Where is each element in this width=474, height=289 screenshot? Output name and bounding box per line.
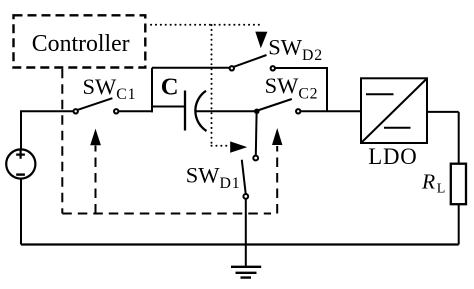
svg-text:SWD1: SWD1 xyxy=(186,162,241,191)
wire SWC1 to node A xyxy=(119,110,154,112)
wire capacitor to node B xyxy=(195,110,255,112)
wire resistor to bottom rail xyxy=(458,204,460,244)
switch SWD1 blade xyxy=(242,160,246,194)
switch SWD1 top terminal xyxy=(253,156,258,161)
wire top branch to SWD2 xyxy=(152,67,230,69)
resistor RL body xyxy=(451,164,466,205)
LDO output bar xyxy=(384,127,411,129)
dotted control line to SWD1 xyxy=(212,145,229,147)
svg-text:SWD2: SWD2 xyxy=(268,34,323,64)
wire node A to capacitor xyxy=(152,106,184,108)
capacitor C left plate xyxy=(184,91,186,131)
wire SWD2 to right corner xyxy=(275,67,327,111)
dashed control arrow shaft to SWC2 xyxy=(276,146,278,214)
dashed control line bottom horizontal xyxy=(62,213,271,215)
switch SWC1 right terminal xyxy=(114,109,118,113)
LDO diagonal xyxy=(362,79,427,142)
svg-text:R: R xyxy=(421,170,435,194)
dashed control arrowhead at SWC2 xyxy=(272,128,282,145)
wire node A branch vertical xyxy=(151,68,153,113)
dotted control line vertical xyxy=(211,25,213,146)
svg-text:C: C xyxy=(161,74,179,101)
svg-text:Controller: Controller xyxy=(32,31,130,57)
wire LDO to resistor xyxy=(427,112,459,164)
switch SWC1 blade xyxy=(78,98,113,110)
switch SWD1 bottom terminal xyxy=(243,194,248,199)
bottom rail wire xyxy=(21,243,459,245)
svg-text:SWC2: SWC2 xyxy=(265,73,319,103)
dashed control arrow shaft to SWC1 xyxy=(95,146,97,214)
voltage source V1 xyxy=(6,149,35,178)
ground xyxy=(231,267,261,278)
switch SWD2 left terminal xyxy=(230,66,234,70)
switch SWD2 right terminal xyxy=(271,66,275,70)
capacitor C curved plate xyxy=(195,91,206,131)
dashed control arrowhead at SWC1 xyxy=(90,129,101,146)
wire node B down to SWD1 xyxy=(255,112,258,155)
switch SWD2 blade xyxy=(234,55,267,67)
LDO input bar xyxy=(366,93,394,95)
controller box xyxy=(14,15,146,67)
dashed control line from controller down xyxy=(61,69,63,214)
dotted control arrowhead at SWD2 xyxy=(255,32,267,49)
svg-text:SWC1: SWC1 xyxy=(83,74,137,103)
svg-text:LDO: LDO xyxy=(368,144,417,169)
switch SWC2 blade xyxy=(258,99,292,111)
wire source bottom xyxy=(20,179,22,245)
dotted control arrowhead at SWD1 xyxy=(230,141,247,152)
dotted control line top horizontal xyxy=(151,24,263,26)
svg-text:L: L xyxy=(437,181,446,196)
wire source top xyxy=(21,111,73,149)
switch SWC2 right terminal xyxy=(296,109,300,113)
wire SWD1 to ground xyxy=(245,199,247,267)
node B junction dot xyxy=(254,109,260,115)
minus mark xyxy=(16,173,25,175)
LDO U1 box xyxy=(361,78,427,143)
switch SWC1 left terminal xyxy=(74,109,78,113)
wire SWC2 to LDO xyxy=(300,110,361,112)
plus mark xyxy=(16,150,25,158)
